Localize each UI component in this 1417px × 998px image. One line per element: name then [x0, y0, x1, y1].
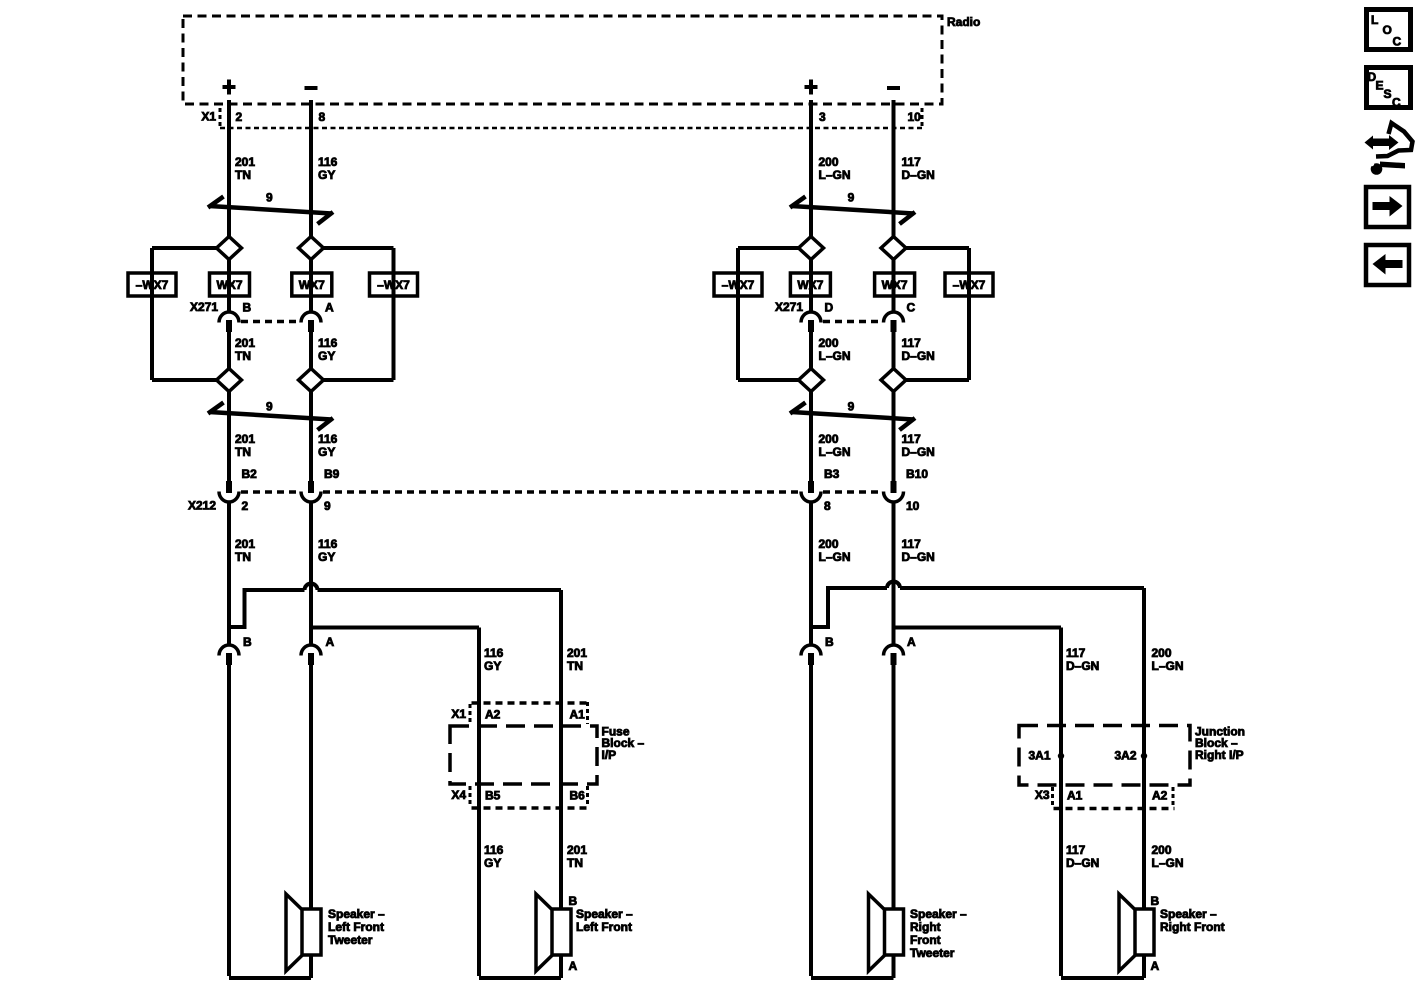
- svg-text:B: B: [243, 301, 252, 315]
- svg-text:116: 116: [318, 336, 338, 350]
- svg-text:Front: Front: [910, 933, 941, 947]
- svg-text:B: B: [1151, 894, 1160, 908]
- svg-text:201: 201: [235, 155, 255, 169]
- svg-text:Tweeter: Tweeter: [328, 933, 373, 947]
- svg-text:X1: X1: [201, 110, 216, 124]
- svg-text:201: 201: [567, 843, 587, 857]
- svg-text:9: 9: [266, 191, 273, 205]
- svg-text:D–GN: D–GN: [902, 168, 935, 182]
- svg-text:L: L: [1371, 13, 1378, 27]
- svg-text:A2: A2: [1152, 789, 1168, 803]
- svg-text:116: 116: [484, 843, 504, 857]
- svg-text:D–GN: D–GN: [1066, 659, 1099, 673]
- svg-text:2: 2: [236, 110, 243, 124]
- svg-text:9: 9: [324, 499, 331, 513]
- svg-text:116: 116: [484, 646, 504, 660]
- svg-text:GY: GY: [318, 550, 335, 564]
- svg-text:WX7: WX7: [299, 278, 325, 292]
- svg-text:X271: X271: [190, 300, 218, 314]
- svg-text:117: 117: [902, 155, 922, 169]
- svg-text:Radio: Radio: [947, 15, 980, 29]
- svg-text:A1: A1: [570, 708, 586, 722]
- svg-text:GY: GY: [318, 445, 335, 459]
- svg-text:200: 200: [819, 155, 839, 169]
- svg-text:200: 200: [1152, 646, 1172, 660]
- svg-text:L–GN: L–GN: [819, 445, 851, 459]
- svg-text:Speaker –: Speaker –: [1160, 907, 1217, 921]
- svg-text:10: 10: [908, 110, 922, 124]
- svg-text:Right I/P: Right I/P: [1195, 748, 1244, 762]
- svg-text:GY: GY: [484, 856, 501, 870]
- svg-text:B6: B6: [570, 789, 586, 803]
- svg-text:–WX7: –WX7: [953, 278, 986, 292]
- svg-text:B: B: [825, 635, 834, 649]
- svg-text:WX7: WX7: [882, 278, 908, 292]
- svg-text:GY: GY: [484, 659, 501, 673]
- svg-text:L–GN: L–GN: [1152, 659, 1184, 673]
- svg-text:TN: TN: [235, 349, 251, 363]
- svg-text:B2: B2: [242, 467, 258, 481]
- svg-text:Left Front: Left Front: [576, 920, 632, 934]
- svg-text:9: 9: [848, 191, 855, 205]
- svg-text:201: 201: [235, 432, 255, 446]
- svg-text:200: 200: [819, 336, 839, 350]
- svg-text:WX7: WX7: [797, 278, 823, 292]
- svg-text:117: 117: [1066, 646, 1086, 660]
- svg-text:L–GN: L–GN: [1152, 856, 1184, 870]
- svg-text:TN: TN: [235, 550, 251, 564]
- svg-text:8: 8: [319, 110, 326, 124]
- svg-text:L–GN: L–GN: [819, 550, 851, 564]
- svg-text:A1: A1: [1067, 789, 1083, 803]
- svg-text:O: O: [1383, 23, 1392, 37]
- svg-text:Left Front: Left Front: [328, 920, 384, 934]
- svg-text:D–GN: D–GN: [902, 349, 935, 363]
- svg-text:B9: B9: [324, 467, 340, 481]
- svg-text:9: 9: [848, 400, 855, 414]
- svg-text:D–GN: D–GN: [1066, 856, 1099, 870]
- svg-text:A: A: [907, 635, 916, 649]
- svg-text:GY: GY: [318, 168, 335, 182]
- svg-text:3: 3: [819, 110, 826, 124]
- svg-text:Speaker –: Speaker –: [910, 907, 967, 921]
- svg-text:A: A: [326, 635, 335, 649]
- svg-text:200: 200: [819, 432, 839, 446]
- svg-text:C: C: [1393, 35, 1402, 49]
- svg-text:TN: TN: [567, 856, 583, 870]
- svg-text:117: 117: [1066, 843, 1086, 857]
- svg-text:–WX7: –WX7: [722, 278, 755, 292]
- svg-text:TN: TN: [567, 659, 583, 673]
- svg-text:200: 200: [819, 537, 839, 551]
- svg-text:200: 200: [1152, 843, 1172, 857]
- svg-text:B: B: [243, 635, 252, 649]
- svg-text:3A1: 3A1: [1028, 748, 1050, 762]
- svg-text:D–GN: D–GN: [902, 550, 935, 564]
- svg-text:B3: B3: [824, 467, 840, 481]
- svg-text:Tweeter: Tweeter: [910, 946, 955, 960]
- svg-text:A: A: [569, 959, 578, 973]
- svg-text:201: 201: [567, 646, 587, 660]
- svg-text:E: E: [1376, 79, 1384, 93]
- svg-text:8: 8: [824, 499, 831, 513]
- svg-text:X4: X4: [451, 788, 466, 802]
- svg-text:116: 116: [318, 537, 338, 551]
- svg-text:TN: TN: [235, 445, 251, 459]
- svg-text:B: B: [569, 894, 578, 908]
- svg-text:TN: TN: [235, 168, 251, 182]
- svg-text:L–GN: L–GN: [819, 168, 851, 182]
- svg-text:201: 201: [235, 336, 255, 350]
- svg-text:S: S: [1384, 87, 1392, 101]
- svg-text:X212: X212: [188, 499, 216, 513]
- svg-text:C: C: [1392, 96, 1401, 110]
- svg-text:116: 116: [318, 155, 338, 169]
- svg-text:117: 117: [902, 432, 922, 446]
- svg-text:Speaker –: Speaker –: [576, 907, 633, 921]
- svg-text:B10: B10: [906, 467, 928, 481]
- svg-text:2: 2: [242, 499, 249, 513]
- svg-text:–WX7: –WX7: [377, 278, 410, 292]
- svg-text:–WX7: –WX7: [136, 278, 169, 292]
- svg-text:Right: Right: [910, 920, 941, 934]
- svg-text:X271: X271: [775, 300, 803, 314]
- svg-text:WX7: WX7: [216, 278, 242, 292]
- svg-text:9: 9: [266, 400, 273, 414]
- svg-text:GY: GY: [318, 349, 335, 363]
- svg-text:117: 117: [902, 537, 922, 551]
- svg-text:D: D: [825, 301, 834, 315]
- svg-text:X1: X1: [451, 707, 466, 721]
- svg-text:Right Front: Right Front: [1160, 920, 1225, 934]
- svg-text:I/P: I/P: [602, 748, 617, 762]
- svg-text:A: A: [1151, 959, 1160, 973]
- svg-text:A2: A2: [485, 708, 501, 722]
- svg-text:117: 117: [902, 336, 922, 350]
- svg-text:Speaker –: Speaker –: [328, 907, 385, 921]
- svg-text:L–GN: L–GN: [819, 349, 851, 363]
- svg-text:A: A: [325, 301, 334, 315]
- svg-text:3A2: 3A2: [1114, 748, 1136, 762]
- svg-text:116: 116: [318, 432, 338, 446]
- svg-text:D–GN: D–GN: [902, 445, 935, 459]
- svg-text:B5: B5: [485, 789, 501, 803]
- svg-text:201: 201: [235, 537, 255, 551]
- svg-text:C: C: [907, 301, 916, 315]
- svg-text:10: 10: [906, 499, 920, 513]
- svg-text:X3: X3: [1035, 788, 1050, 802]
